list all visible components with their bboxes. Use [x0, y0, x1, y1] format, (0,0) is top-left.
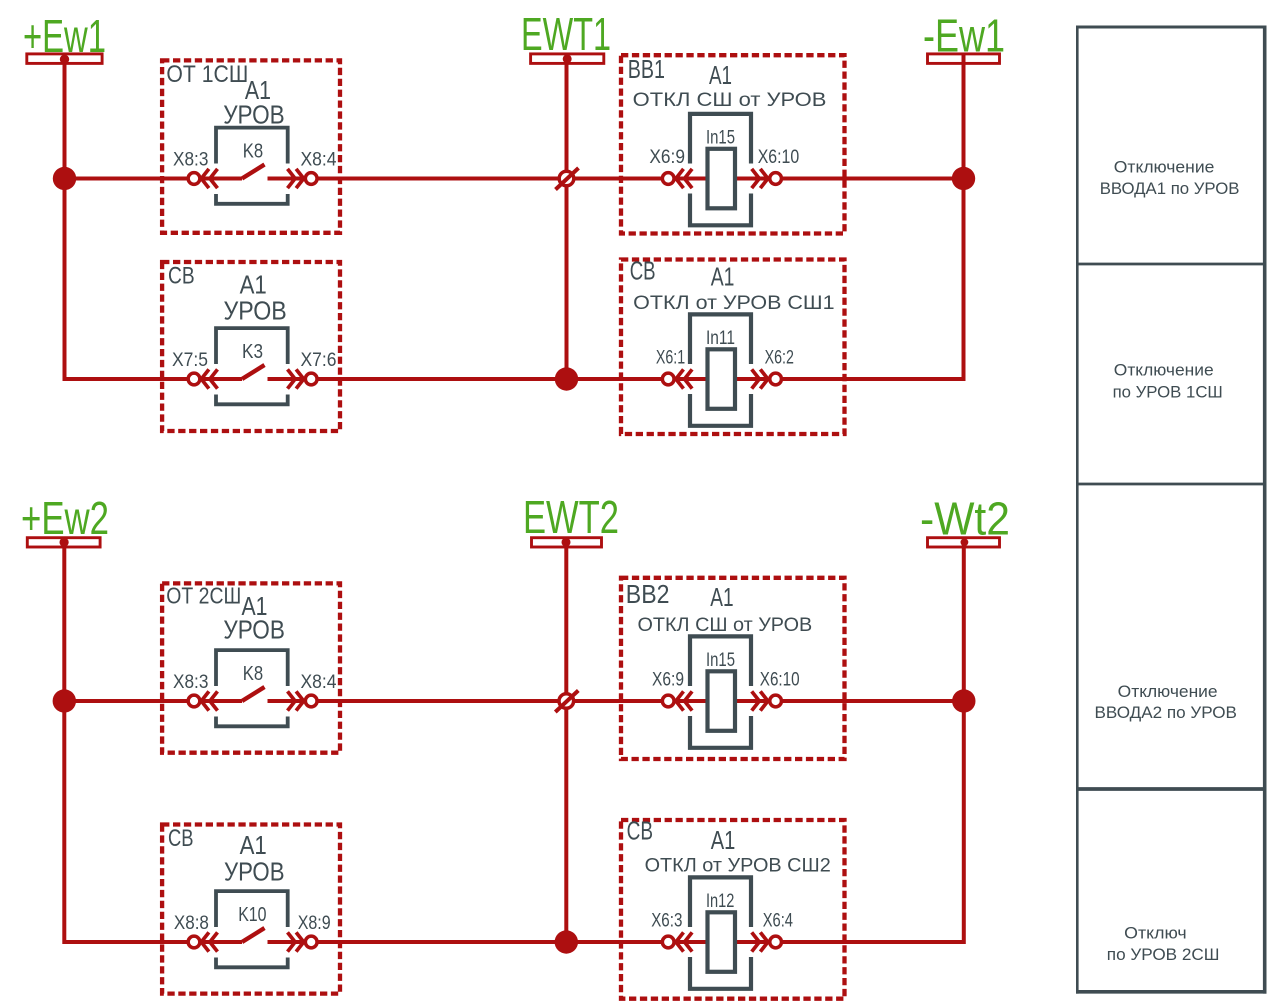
svg-text:СВ: СВ — [168, 825, 194, 852]
svg-text:X8:8: X8:8 — [174, 913, 209, 934]
svg-text:X6:1: X6:1 — [656, 348, 685, 369]
svg-text:ОТКЛ от УРОВ СШ2: ОТКЛ от УРОВ СШ2 — [645, 855, 831, 877]
coil In15 body — [708, 149, 736, 209]
contact K8 blade (NO) — [242, 165, 265, 179]
svg-text:ВВ2: ВВ2 — [626, 579, 670, 609]
table row2 text: Otklyuchenie po UROV 1SSh — [1113, 361, 1223, 402]
contact K8 blade (NO) — [242, 687, 265, 701]
junction node EWT2/row4 — [555, 930, 578, 953]
svg-text:K3: K3 — [242, 341, 263, 363]
dashed box OT 1SSh (contact K8 row1) — [162, 60, 340, 232]
dashed box SV (coil In12 row4) — [621, 820, 845, 999]
svg-text:X6:4: X6:4 — [763, 911, 794, 932]
svg-text:ВВ1: ВВ1 — [628, 54, 665, 84]
svg-text:EWT1: EWT1 — [521, 8, 611, 60]
table row4 text: Otklyuch po UROV 2SSh — [1107, 924, 1220, 964]
svg-text:In11: In11 — [706, 328, 735, 349]
svg-text:X8:3: X8:3 — [173, 672, 208, 693]
coil In15 terminals and chevrons — [662, 169, 781, 188]
svg-text:Отключение: Отключение — [1118, 682, 1218, 701]
svg-text:X8:4: X8:4 — [301, 672, 337, 693]
relay contact K10 frame — [216, 891, 288, 967]
coil In15 outer frame — [690, 636, 751, 747]
coil In12 body — [708, 912, 736, 972]
svg-text:СВ: СВ — [630, 256, 656, 286]
wire row3 right segment — [268, 699, 964, 703]
coil In15 body — [708, 671, 736, 731]
coil In12 terminals and chevrons — [662, 932, 781, 951]
svg-text:УРОВ: УРОВ — [224, 857, 285, 887]
svg-text:ОТКЛ СШ от УРОВ: ОТКЛ СШ от УРОВ — [633, 89, 827, 111]
coil In15 outer frame — [690, 114, 751, 225]
coil In11 body — [708, 349, 736, 409]
contact K3 blade (NO) — [242, 365, 265, 379]
svg-text:ВВОДА2 по УРОВ: ВВОДА2 по УРОВ — [1095, 703, 1237, 722]
svg-text:X8:4: X8:4 — [301, 150, 337, 171]
svg-text:K8: K8 — [243, 663, 263, 685]
junction node -Ew1/row1 — [952, 167, 975, 190]
svg-text:+Ew2: +Ew2 — [21, 492, 109, 544]
svg-text:Отключение: Отключение — [1114, 361, 1214, 380]
svg-text:УРОВ: УРОВ — [223, 615, 285, 645]
junction node EWT1/row2 — [555, 367, 578, 390]
bus bar +Ew2 — [27, 538, 100, 547]
wire row3 left segment — [64, 699, 242, 703]
bus bar EWT2 — [532, 538, 602, 547]
no-connection crossing EWT2/row3 — [555, 691, 578, 713]
junction node -Wt2/row3 — [952, 689, 975, 712]
svg-text:In15: In15 — [706, 650, 735, 671]
svg-text:X6:9: X6:9 — [652, 670, 684, 691]
svg-text:-Ew1: -Ew1 — [923, 10, 1005, 62]
svg-text:А1: А1 — [710, 582, 733, 612]
wire row2 right segment and -Ew1 vertical — [268, 55, 964, 380]
svg-text:А1: А1 — [711, 825, 736, 855]
svg-text:X7:6: X7:6 — [301, 350, 337, 371]
svg-text:ОТКЛ от УРОВ СШ1: ОТКЛ от УРОВ СШ1 — [633, 292, 834, 314]
svg-text:УРОВ: УРОВ — [223, 99, 285, 129]
svg-text:А1: А1 — [709, 60, 732, 90]
junction node +Ew2/row3 — [53, 689, 76, 712]
coil In11 outer frame — [690, 314, 751, 425]
svg-text:X6:10: X6:10 — [760, 670, 800, 691]
bus bar EWT1 — [531, 54, 604, 64]
svg-text:ОТ 2СШ: ОТ 2СШ — [166, 583, 241, 609]
contact K3 terminals and chevrons — [188, 369, 317, 388]
svg-text:X7:5: X7:5 — [172, 350, 208, 371]
wire EWT1 vertical — [565, 59, 569, 379]
svg-text:+Ew1: +Ew1 — [23, 10, 106, 62]
dashed box SV (contact K3 row2) — [162, 262, 340, 431]
svg-text:X6:2: X6:2 — [765, 348, 794, 369]
coil In15 terminals and chevrons — [662, 691, 781, 710]
svg-text:X8:3: X8:3 — [173, 150, 208, 171]
svg-text:А1: А1 — [711, 262, 735, 292]
svg-text:Отключ: Отключ — [1124, 924, 1187, 943]
table row3 text: Otklyuchenie VVODA2 po UROV — [1095, 682, 1237, 722]
relay contact K8 frame — [216, 650, 288, 726]
svg-text:X6:9: X6:9 — [649, 147, 685, 168]
svg-text:ОТКЛ СШ от УРОВ: ОТКЛ СШ от УРОВ — [638, 614, 813, 636]
relay contact K8 frame — [216, 128, 288, 204]
bus bar +Ew1 — [27, 54, 102, 64]
wire EWT2 vertical — [564, 542, 568, 942]
bus bar -Wt2 — [928, 538, 1000, 547]
coil In11 terminals and chevrons — [662, 369, 781, 388]
svg-text:А1: А1 — [240, 830, 267, 860]
dashed box BB2 (coil In15 row3) — [621, 578, 845, 759]
svg-text:по УРОВ 2СШ: по УРОВ 2СШ — [1107, 945, 1220, 964]
svg-text:-Wt2: -Wt2 — [920, 493, 1010, 545]
svg-text:ВВОДА1 по УРОВ: ВВОДА1 по УРОВ — [1100, 179, 1240, 198]
contact K8 terminals and chevrons — [188, 691, 317, 710]
wire row1 right segment — [268, 177, 964, 181]
svg-text:X6:3: X6:3 — [651, 911, 682, 932]
coil In12 outer frame — [690, 877, 751, 988]
contact K10 terminals and chevrons — [188, 932, 317, 951]
no-connection crossing EWT1/row1 — [556, 168, 579, 190]
svg-text:ОТ 1СШ: ОТ 1СШ — [166, 61, 248, 88]
relay contact K3 frame — [216, 328, 288, 404]
table row1 text: Otklyuchenie VVODA1 po UROV — [1100, 158, 1240, 198]
svg-text:EWT2: EWT2 — [523, 491, 619, 543]
svg-text:СВ: СВ — [168, 263, 195, 290]
wire +Ew2 vertical and row4 left segment — [64, 542, 242, 942]
svg-text:Отключение: Отключение — [1114, 158, 1215, 177]
wire row4 right segment and -Wt2 vertical — [268, 542, 964, 942]
dashed box SV (coil In11 row2) — [621, 260, 845, 435]
junction node +Ew1/row1 — [53, 167, 76, 190]
contact K8 terminals and chevrons — [188, 169, 317, 188]
dashed box BB1 (coil In15 row1) — [621, 55, 845, 233]
wire +Ew1 vertical and row2 left segment — [65, 59, 243, 379]
svg-text:X8:9: X8:9 — [298, 913, 331, 934]
svg-text:СВ: СВ — [627, 816, 653, 846]
bus bar -Ew1 — [928, 54, 1000, 64]
svg-text:In12: In12 — [706, 891, 734, 912]
contact K10 blade (NO) — [242, 928, 265, 942]
dashed box SV (contact K10 row4) — [162, 825, 340, 994]
svg-text:УРОВ: УРОВ — [224, 296, 287, 326]
svg-text:K8: K8 — [243, 141, 263, 163]
wire row1 left segment — [65, 177, 243, 181]
svg-text:K10: K10 — [238, 904, 266, 926]
annotation table frame — [1076, 26, 1267, 994]
svg-text:In15: In15 — [706, 128, 735, 149]
dashed box OT 2SSh (contact K8 row3) — [162, 583, 340, 752]
svg-text:по УРОВ 1СШ: по УРОВ 1СШ — [1113, 383, 1223, 402]
svg-text:X6:10: X6:10 — [758, 147, 800, 168]
